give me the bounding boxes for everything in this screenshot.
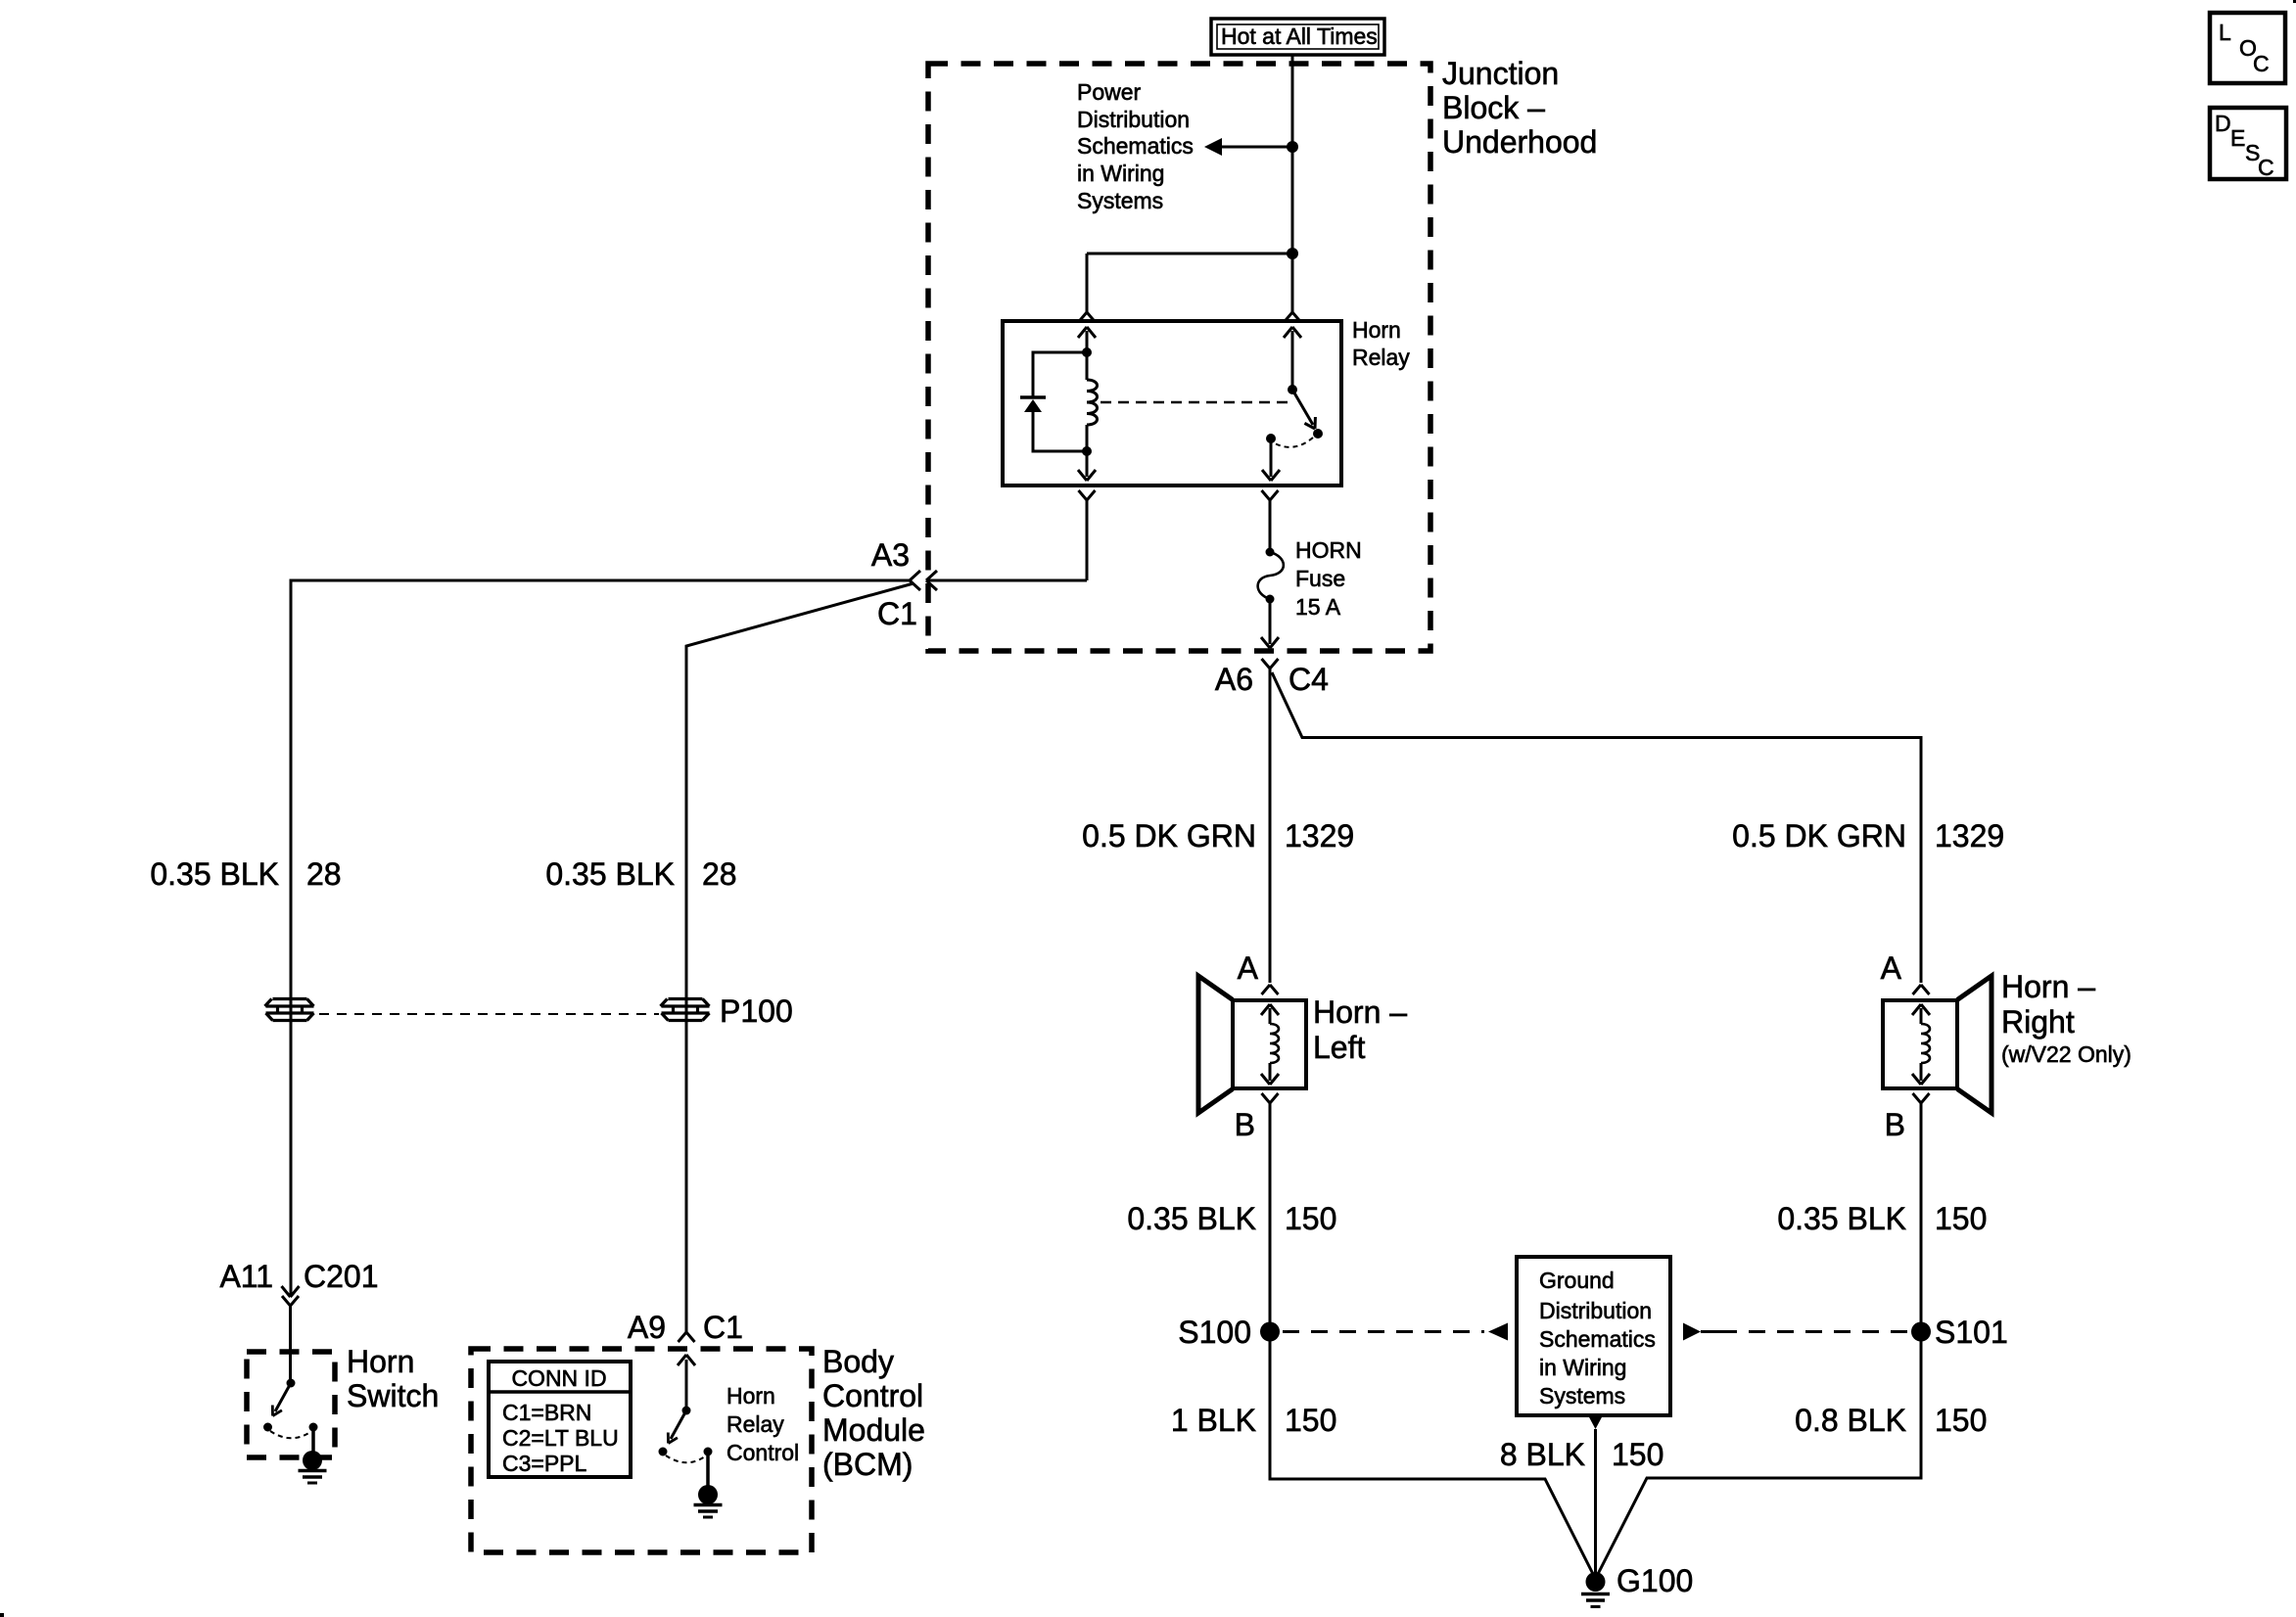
svg-text:A3: A3 [871,537,910,573]
svg-text:Right: Right [2001,1004,2075,1039]
svg-text:Hot at All Times: Hot at All Times [1221,23,1378,49]
svg-text:C1: C1 [703,1310,743,1345]
BCM switch contact right [704,1448,713,1456]
horn left box [1233,1000,1306,1088]
wire label 0.35 BLK 150 (left) [1127,1201,1336,1236]
BCM label [822,1344,925,1482]
svg-text:8 BLK: 8 BLK [1500,1437,1585,1472]
relay coil L1 [1087,352,1098,451]
svg-text:Body: Body [822,1344,894,1379]
svg-text:1329: 1329 [1285,818,1354,854]
LOC reference box [2210,13,2285,83]
connector fork at relay coil pin (top) [1079,312,1096,322]
horn switch arm [272,1383,291,1416]
connector fork below relay coil pin [1079,490,1096,500]
svg-text:(BCM): (BCM) [822,1447,913,1482]
relay switch arm [1292,390,1323,439]
svg-text:28: 28 [306,856,342,892]
svg-text:C201: C201 [304,1259,379,1294]
label pin A (left horn) [1238,950,1259,986]
label A3 [871,537,910,573]
relay coil pin arrow (inside, up) [1078,327,1096,352]
label pin B (left horn) [1235,1107,1255,1142]
horn right coil [1912,1004,1930,1085]
svg-text:Block –: Block – [1442,90,1545,125]
relay output pin arrow (inside, down) [1262,439,1280,481]
wire: A3 to horn switch (left branch) [291,580,910,1296]
wire: C201 to horn switch [289,1306,292,1383]
svg-text:0.35 BLK: 0.35 BLK [1777,1201,1906,1236]
label S101 [1935,1315,2008,1350]
svg-text:S101: S101 [1935,1315,2008,1350]
svg-text:Control: Control [726,1440,799,1465]
relay coil node bottom [1082,446,1092,456]
horn switch pivot [287,1379,296,1388]
horn right label [2001,969,2132,1067]
label A9 [628,1310,666,1345]
svg-text:C3=PPL: C3=PPL [502,1451,587,1476]
svg-text:Fuse: Fuse [1295,566,1345,591]
svg-text:150: 150 [1285,1201,1336,1236]
wire: branch to relay coil pin [1087,254,1292,312]
svg-text:D: D [2215,111,2231,136]
power label box: Hot at All Times [1211,19,1384,55]
dashed link ground distribution box to S101 [1683,1323,1907,1341]
svg-text:Horn: Horn [726,1383,775,1409]
ground distribution box [1517,1257,1670,1415]
horn relay label [1352,317,1410,370]
svg-text:150: 150 [1612,1437,1663,1472]
BCM switch dashed travel arc [666,1455,705,1462]
svg-text:15 A: 15 A [1295,594,1341,620]
ground distribution arrow down [1588,1415,1603,1573]
relay actuation dashed link [1101,401,1289,404]
connector fork at relay switch pin (top) [1285,312,1301,322]
relay switch pivot [1288,385,1297,394]
label P100 [720,993,793,1029]
svg-text:A9: A9 [628,1310,666,1345]
DESC reference box [2210,108,2286,180]
wire label 0.35 BLK 150 (right) [1777,1201,1987,1236]
horn switch dashed travel arc [270,1431,310,1438]
connector fork at BCM (A9/C1) [679,1332,695,1342]
svg-text:C: C [2258,155,2274,180]
svg-text:150: 150 [1935,1403,1987,1438]
svg-text:Junction: Junction [1442,56,1559,91]
BCM switch contact left [659,1448,668,1456]
relay switch dashed travel arc [1275,438,1313,447]
svg-text:Distribution: Distribution [1539,1298,1652,1323]
wire label 1 BLK 150 [1171,1403,1337,1438]
chassis ground (horn switch) [299,1451,327,1483]
svg-text:in Wiring: in Wiring [1539,1355,1626,1380]
wire: fuse to junction block edge [1261,599,1279,648]
P100 dashed link [319,1013,659,1015]
svg-text:Horn –: Horn – [2001,969,2095,1004]
wire: left horn B to S100 [1269,1103,1272,1331]
label S100 [1178,1315,1251,1350]
connector A6/C4 [1262,659,1279,669]
svg-text:B: B [1235,1107,1255,1142]
diode CR1 (coil clamp) [1020,352,1087,451]
label A6 [1215,662,1253,697]
horn left coil [1261,1004,1279,1085]
svg-text:A11: A11 [219,1259,273,1294]
fuse HORN 15A [1258,548,1284,604]
BCM ground stem [706,1452,710,1486]
svg-text:0.35 BLK: 0.35 BLK [150,856,279,892]
label A11 [219,1259,273,1294]
pass-through grommet P100 (BCM wire) [661,999,710,1021]
wire: battery feed vertical (Hot at All Times to relay) [1287,55,1298,312]
svg-text:Relay: Relay [726,1411,784,1437]
svg-text:0.5 DK GRN: 0.5 DK GRN [1732,818,1906,854]
svg-text:Systems: Systems [1077,188,1163,213]
wire: S101 to G100 bus [1596,1332,1921,1579]
annotation: Horn Relay Control [726,1383,799,1465]
connector fork at left horn B [1262,1093,1279,1103]
BCM input arrow (inside, up) [678,1355,695,1410]
svg-text:Module: Module [822,1412,925,1448]
svg-text:C4: C4 [1289,662,1329,697]
wire label 0.8 BLK 150 [1795,1403,1987,1438]
horn switch label [347,1344,439,1413]
label C1 [877,596,917,631]
horn left flare [1198,976,1233,1113]
svg-text:P100: P100 [720,993,793,1029]
svg-text:G100: G100 [1617,1563,1693,1598]
label C4 [1289,662,1329,697]
svg-text:0.35 BLK: 0.35 BLK [545,856,675,892]
junction block label [1442,56,1597,160]
wire label 0.35 BLK 28 (left branch) [150,856,341,892]
connector A3/C1 (double chevron at junction block edge) [910,571,937,590]
connector fork at left horn A [1262,985,1279,994]
horn switch ground stem [311,1427,315,1453]
horn switch contact right [309,1423,318,1432]
svg-text:1 BLK: 1 BLK [1171,1403,1256,1438]
svg-text:0.5 DK GRN: 0.5 DK GRN [1082,818,1256,854]
svg-text:Schematics: Schematics [1539,1326,1656,1352]
BCM switch arm [668,1410,686,1444]
arrow to Power Distribution Schematics [1204,138,1292,156]
svg-text:Horn: Horn [1352,317,1401,343]
fuse label [1295,537,1362,620]
svg-text:Control: Control [822,1378,923,1413]
svg-text:1329: 1329 [1935,818,2004,854]
horn right box [1883,1000,1957,1088]
label pin B (right horn) [1885,1107,1905,1142]
svg-text:Power: Power [1077,79,1142,105]
svg-text:A: A [1881,950,1902,986]
svg-text:(w/V22 Only): (w/V22 Only) [2001,1041,2132,1067]
splice S101 [1911,1322,1931,1342]
pass-through grommet P100 (left wire) [265,999,314,1021]
wire label 0.5 DK GRN 1329 (left) [1082,818,1354,854]
relay switch common arrow (inside, up) [1284,327,1301,390]
annotation: Power Distribution Schematics in Wiring Systems [1077,79,1194,213]
svg-text:A: A [1238,950,1259,986]
svg-text:E: E [2230,125,2245,151]
horn left label [1313,994,1407,1065]
relay switch contact [1266,434,1276,443]
svg-text:C2=LT BLU: C2=LT BLU [502,1425,619,1451]
wire label 8 BLK 150 [1500,1437,1664,1472]
svg-text:CONN ID: CONN ID [511,1365,606,1391]
connector fork at right horn B [1913,1093,1930,1103]
wire: S100 to G100 bus [1270,1332,1595,1579]
svg-text:28: 28 [702,856,737,892]
svg-text:B: B [1885,1107,1905,1142]
svg-text:S100: S100 [1178,1315,1251,1350]
connector fork below relay output pin [1262,490,1279,500]
svg-text:Horn: Horn [347,1344,414,1379]
ground G100 [1581,1572,1610,1607]
label C201 [304,1259,379,1294]
wire label 0.5 DK GRN 1329 (right) [1732,818,2004,854]
svg-text:Underhood: Underhood [1442,124,1597,160]
svg-text:150: 150 [1935,1201,1987,1236]
horn switch contact left [263,1423,272,1432]
wire: A3 to BCM (diagonal + vertical) [686,583,914,1332]
label C1 (BCM) [703,1310,743,1345]
svg-text:Switch: Switch [347,1378,439,1413]
relay coil node top [1082,347,1092,357]
dashed link S100 to ground distribution box [1283,1323,1508,1341]
wire: relay coil pin down to A3 [926,500,1087,580]
svg-text:HORN: HORN [1295,537,1362,563]
wire: branch to right horn [1272,672,1921,983]
svg-text:C1=BRN: C1=BRN [502,1400,591,1425]
CONN ID table [489,1362,631,1477]
horn switch dashed box [247,1352,335,1457]
svg-text:Schematics: Schematics [1077,133,1194,159]
junction block - underhood (dashed box) [928,64,1430,651]
svg-text:in Wiring: in Wiring [1077,161,1164,186]
wire: A6 to left horn [1269,669,1272,983]
svg-text:Relay: Relay [1352,345,1410,370]
wire: right horn B to S101 [1920,1103,1923,1331]
connector A11/C201 (in-line) [282,1286,300,1306]
wire: relay output to fuse [1269,500,1272,552]
svg-text:Ground: Ground [1539,1268,1615,1293]
svg-text:150: 150 [1285,1403,1336,1438]
svg-text:C1: C1 [877,596,917,631]
svg-text:0.8 BLK: 0.8 BLK [1795,1403,1906,1438]
svg-text:Horn –: Horn – [1313,994,1407,1030]
label G100 [1617,1563,1693,1598]
svg-text:C: C [2253,51,2270,76]
chassis ground (BCM) [694,1485,723,1517]
svg-text:Left: Left [1313,1030,1365,1065]
svg-text:A6: A6 [1215,662,1253,697]
body control module dashed box [471,1349,812,1552]
horn relay box [1003,321,1341,485]
svg-text:0.35 BLK: 0.35 BLK [1127,1201,1256,1236]
svg-text:L: L [2219,20,2231,45]
label pin A (right horn) [1881,950,1902,986]
horn right flare [1957,976,1991,1113]
connector fork at right horn A [1913,985,1930,994]
svg-text:Systems: Systems [1539,1383,1625,1409]
relay coil output arrow (inside, down) [1078,451,1096,481]
BCM switch pivot [682,1407,691,1415]
svg-text:Distribution: Distribution [1077,107,1190,132]
wire label 0.35 BLK 28 (BCM branch) [545,856,736,892]
splice S100 [1260,1322,1280,1342]
